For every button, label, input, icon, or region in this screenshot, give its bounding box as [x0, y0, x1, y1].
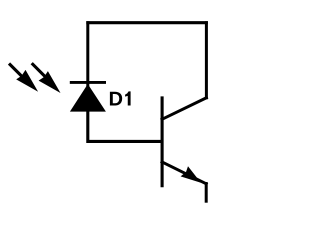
- emitter diagonal: [162, 162, 206, 184]
- emitter arrowhead: [181, 166, 201, 183]
- label D1: [110, 91, 131, 105]
- cathode bar: [70, 81, 106, 84]
- wire left vertical (top rail to photodiode cathode): [86, 23, 89, 86]
- base bar: [161, 96, 164, 187]
- wire anode to base (L-shaped): [88, 111, 162, 142]
- light arrow 2: [32, 63, 61, 93]
- anode triangle: [70, 84, 106, 112]
- wire right vertical (top rail to collector): [205, 23, 208, 98]
- photodiode D1: [9, 63, 106, 111]
- collector diagonal: [162, 98, 206, 120]
- wire top: [86, 21, 208, 24]
- wire emitter lead down: [205, 182, 208, 203]
- transistor (NPN): [162, 96, 206, 187]
- light arrow 1: [9, 64, 38, 92]
